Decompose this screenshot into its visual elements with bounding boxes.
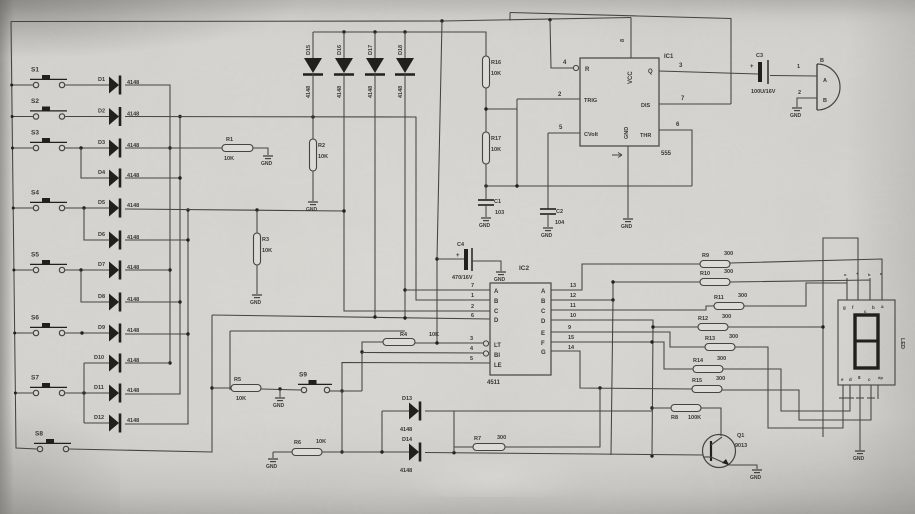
diode D4 <box>98 169 139 188</box>
display top pin stubs <box>846 278 848 300</box>
switch S4 <box>30 190 67 211</box>
display digit 8 <box>855 315 878 368</box>
svg-text:3: 3 <box>470 336 473 342</box>
svg-text:R8: R8 <box>671 415 678 421</box>
wire TRIG vertical to bottom rail <box>516 99 518 186</box>
svg-text:5: 5 <box>470 356 473 362</box>
wire mystery row above LT <box>229 331 231 390</box>
node B jog corner <box>611 280 614 283</box>
svg-text:D9: D9 <box>98 325 105 331</box>
svg-text:4148: 4148 <box>306 86 312 98</box>
svg-text:a: a <box>880 271 883 276</box>
display bottom pin stubs <box>842 385 844 399</box>
wire R17 to rail <box>485 164 487 199</box>
svg-text:14: 14 <box>568 345 575 351</box>
svg-text:R11: R11 <box>714 295 724 301</box>
svg-text:B: B <box>820 58 824 64</box>
svg-text:BI: BI <box>494 353 500 359</box>
svg-text:12: 12 <box>570 293 576 299</box>
node rail2 D17 tap <box>373 30 376 33</box>
svg-text:4148: 4148 <box>400 427 412 433</box>
wire pin11 C to R11 <box>551 306 714 310</box>
diode D13 <box>409 402 420 421</box>
pin4 BI circle <box>483 351 488 356</box>
svg-text:S6: S6 <box>31 315 39 322</box>
wire pin10 D to R12 <box>551 320 698 327</box>
display pin tick marks <box>839 397 847 399</box>
wire R7 left stub <box>454 446 473 448</box>
svg-text:R6: R6 <box>294 440 301 446</box>
wire D13 row <box>425 410 652 412</box>
wire C3 to speaker pin1 <box>770 75 817 78</box>
wire pin15 F to R14 <box>551 342 693 369</box>
wire D16 column stub <box>343 32 345 58</box>
wire R6 ground stub <box>272 452 274 458</box>
svg-text:GND: GND <box>273 403 285 409</box>
node R5 tap on S8 vertical <box>210 386 213 389</box>
svg-text:13: 13 <box>570 283 576 289</box>
svg-text:D17: D17 <box>368 45 374 55</box>
svg-text:D14: D14 <box>402 437 413 443</box>
svg-text:VCC: VCC <box>628 71 634 84</box>
pin3 LT circle <box>483 341 488 346</box>
svg-text:R4: R4 <box>400 332 408 338</box>
switch S8 <box>34 431 71 452</box>
svg-text:4148: 4148 <box>368 86 374 98</box>
diode D11 <box>94 384 139 403</box>
svg-text:f: f <box>852 305 854 310</box>
svg-text:DIS: DIS <box>641 103 651 109</box>
svg-text:300: 300 <box>722 314 731 320</box>
svg-text:300: 300 <box>716 376 725 382</box>
node R7 vertical tap <box>598 386 601 389</box>
svg-text:15: 15 <box>568 335 574 341</box>
svg-text:C: C <box>494 309 499 315</box>
capacitor C2 <box>540 209 556 214</box>
ground display <box>853 451 865 462</box>
wire 555 pin3 Q out <box>659 71 758 74</box>
svg-text:4148: 4148 <box>127 203 139 209</box>
ground speaker <box>790 108 802 119</box>
wire rail stub to S5 <box>14 269 33 271</box>
svg-text:GND: GND <box>306 207 318 213</box>
wire R8 to collector <box>701 408 721 436</box>
diode D5 <box>98 199 139 218</box>
wire pin14 G down <box>551 351 692 389</box>
svg-text:A: A <box>823 78 827 84</box>
node V1 bottom on LT row <box>435 341 438 344</box>
wire display common to ground <box>859 399 861 450</box>
diode D8 <box>98 293 139 312</box>
svg-text:103: 103 <box>495 210 504 216</box>
svg-text:10K: 10K <box>429 332 439 338</box>
node F row tap <box>650 340 653 343</box>
wire R6 left <box>273 451 292 453</box>
svg-text:C: C <box>541 309 546 315</box>
svg-text:R5: R5 <box>234 377 241 383</box>
node rail-R17 <box>484 184 487 187</box>
svg-text:10K: 10K <box>318 154 328 160</box>
node S9-LE junction <box>340 389 343 392</box>
wire D5 row long run to D16 column <box>125 209 344 211</box>
wire display common loop <box>823 238 858 437</box>
wire 555 pin7 DIS <box>659 103 731 105</box>
svg-text:8: 8 <box>620 39 626 42</box>
svg-text:6: 6 <box>471 313 474 319</box>
switch S1 <box>30 67 67 88</box>
wire R4 left corner down <box>362 342 383 391</box>
svg-text:4: 4 <box>470 346 474 352</box>
wire R2 to ground <box>312 171 314 201</box>
svg-text:LT: LT <box>494 343 501 349</box>
wire rail stub to S6 <box>15 332 33 334</box>
wire R16-R17 link <box>485 88 487 132</box>
wire R16 junction jog <box>486 108 517 110</box>
wire pin9 E to R13 <box>551 332 705 347</box>
node loop-R12 <box>821 325 824 328</box>
svg-text:D: D <box>541 319 546 325</box>
node D18 - IC2 pin A row <box>403 288 406 291</box>
resistor R12 <box>698 314 731 331</box>
svg-text:G: G <box>541 350 546 356</box>
svg-text:GND: GND <box>790 113 802 119</box>
svg-text:300: 300 <box>717 356 726 362</box>
wire LE vertical continues down to R6 row <box>341 391 343 452</box>
node row B - D15 column <box>311 115 314 118</box>
svg-text:R7: R7 <box>474 436 481 442</box>
svg-text:e: e <box>841 377 844 382</box>
switch S6 <box>30 315 67 336</box>
resistor R16 <box>483 56 502 88</box>
wire S3 branch down to D4 <box>81 148 109 178</box>
transistor Q1 9013 <box>703 433 748 468</box>
svg-text:D7: D7 <box>98 262 105 268</box>
wire long row from S8 vertical to IC2 pin 6 <box>212 315 490 319</box>
svg-text:2: 2 <box>471 304 474 310</box>
svg-text:104: 104 <box>555 220 565 226</box>
wire D3 row to R1 <box>125 147 222 149</box>
wire R12 to display loop <box>728 326 823 328</box>
svg-text:4: 4 <box>563 60 567 66</box>
wire D11 row to bus B <box>125 390 180 394</box>
svg-text:R13: R13 <box>705 336 715 342</box>
speaker B <box>817 58 840 110</box>
svg-text:10K: 10K <box>224 156 234 162</box>
svg-text:300: 300 <box>729 334 738 340</box>
wire VCC top rail <box>11 18 631 22</box>
svg-text:1: 1 <box>797 64 800 70</box>
svg-text:6: 6 <box>676 122 680 128</box>
wire 555 pin5 CVolt <box>548 132 580 134</box>
svg-text:B: B <box>823 98 827 104</box>
wire LT row R4 to pin3 <box>415 342 483 344</box>
node R12 row tap <box>651 325 654 328</box>
ground C4 <box>494 272 506 283</box>
wire S6 to D9 <box>65 332 109 334</box>
wire D8 row to bus B <box>125 301 180 303</box>
wire S7 to D11 <box>65 392 109 394</box>
wire rail stub to S1 <box>12 84 33 86</box>
wire ground stub <box>279 389 281 397</box>
wire D13-D14 left vertical <box>381 411 383 452</box>
svg-text:g: g <box>843 305 846 310</box>
wire 555 GND pin down <box>627 146 629 218</box>
svg-text:GND: GND <box>261 161 273 167</box>
resistor R10 <box>700 269 733 286</box>
svg-text:7: 7 <box>471 283 474 289</box>
svg-text:S9: S9 <box>299 372 307 379</box>
svg-text:a: a <box>881 304 884 309</box>
wire R5 to S9 <box>261 389 301 390</box>
svg-text:A: A <box>494 289 499 295</box>
svg-text:11: 11 <box>570 303 576 309</box>
svg-text:10K: 10K <box>236 396 246 402</box>
wire D4 row to bus B <box>125 177 180 179</box>
diode D10 <box>94 354 139 373</box>
svg-text:10: 10 <box>570 313 576 319</box>
node rail2 D16 tap <box>342 30 345 33</box>
node rail junction at x440 <box>440 19 443 22</box>
diode D1 <box>98 76 139 95</box>
resistor R11 <box>714 293 747 310</box>
wire R10 to display <box>730 280 870 300</box>
wire 555 pin2 TRIG <box>517 98 580 100</box>
node D13 vertical <box>380 450 383 453</box>
wire C4 left stub <box>437 258 464 260</box>
wire R9 to display pin a <box>730 259 882 300</box>
wire C1 to ground <box>485 205 487 217</box>
node D16 column - D5 row <box>342 209 345 212</box>
svg-text:5: 5 <box>559 125 563 131</box>
wire speaker pin2 to ground <box>797 98 817 107</box>
svg-text:c: c <box>868 377 871 382</box>
wire left supply rail <box>11 22 37 450</box>
svg-text:D13: D13 <box>402 396 412 402</box>
wire rail stub to S3 <box>13 147 34 149</box>
svg-text:R15: R15 <box>692 378 702 384</box>
wire 555 pin8 VCC stub <box>630 18 632 59</box>
wire S4 branch down to D6 <box>84 208 109 240</box>
svg-text:GND: GND <box>621 224 633 230</box>
svg-text:4148: 4148 <box>400 468 412 474</box>
svg-text:555: 555 <box>661 151 672 157</box>
svg-text:470/16V: 470/16V <box>452 275 473 281</box>
svg-text:4148: 4148 <box>337 86 343 98</box>
wire R6 row to D14 <box>322 451 409 453</box>
switch S9 <box>298 372 332 393</box>
svg-text:R10: R10 <box>700 271 710 277</box>
ground 555 <box>621 219 633 230</box>
wire S9 right <box>330 390 362 392</box>
switch S2 <box>30 98 67 119</box>
wire pin5 down to C2 <box>547 133 549 209</box>
svg-text:D6: D6 <box>98 232 105 238</box>
wire BI row <box>362 352 483 355</box>
svg-text:9: 9 <box>568 325 571 331</box>
wire R1 to ground <box>253 148 268 155</box>
diode D14 <box>409 443 420 462</box>
svg-text:b: b <box>868 272 871 277</box>
small arrow marker <box>612 153 622 158</box>
svg-text:S4: S4 <box>31 190 39 197</box>
resistor R4 <box>383 332 439 346</box>
diode D18 <box>395 45 415 98</box>
svg-text:D12: D12 <box>94 415 104 421</box>
svg-text:GND: GND <box>479 223 491 229</box>
svg-text:IC2: IC2 <box>519 265 530 272</box>
switch S5 <box>30 252 67 273</box>
svg-text:R16: R16 <box>491 60 501 66</box>
node bus A - D10 <box>168 361 171 364</box>
wire D6 row to bus C <box>125 239 188 241</box>
node R7 left vertical joint <box>452 451 455 454</box>
wire D15 column to R2 <box>312 74 314 139</box>
svg-text:C3: C3 <box>756 53 763 59</box>
svg-text:S7: S7 <box>31 375 39 382</box>
node LE-R6 row <box>340 450 343 453</box>
svg-text:D10: D10 <box>94 355 104 361</box>
resistor R6 <box>292 449 322 456</box>
node base line tap <box>650 454 653 457</box>
svg-text:4511: 4511 <box>487 380 501 386</box>
resistor R5 <box>231 377 261 392</box>
diode D3 <box>98 139 139 158</box>
svg-text:300: 300 <box>724 269 733 275</box>
svg-text:+: + <box>456 253 460 259</box>
node rail2 D18 tap <box>403 30 406 33</box>
svg-text:D2: D2 <box>98 109 105 115</box>
wire VCC vertical to R4/LT row <box>437 21 442 343</box>
wire emitter to ground <box>729 465 757 469</box>
svg-text:D3: D3 <box>98 140 105 146</box>
svg-text:Q: Q <box>648 69 653 75</box>
svg-text:R1: R1 <box>226 137 233 143</box>
svg-text:7: 7 <box>681 96 685 102</box>
svg-text:10K: 10K <box>262 248 272 254</box>
svg-text:D8: D8 <box>98 294 105 300</box>
svg-text:D11: D11 <box>94 385 104 391</box>
ground R1 <box>261 156 273 167</box>
resistor R8 <box>671 405 701 412</box>
wire S5 branch down to D8 <box>81 270 109 302</box>
svg-text:1: 1 <box>471 293 474 299</box>
svg-text:D16: D16 <box>337 45 343 55</box>
node ground tap <box>278 387 281 390</box>
svg-text:C1: C1 <box>494 199 501 205</box>
diode D15 <box>303 45 323 98</box>
svg-text:GND: GND <box>750 475 762 481</box>
wire S1 to D1 <box>65 84 109 86</box>
wire bottom rail R17-C1 to pin6 loop <box>486 185 692 187</box>
wire D10 left stub <box>84 362 109 364</box>
wire R13 to display <box>735 347 843 428</box>
wire bus C vertical <box>187 210 189 424</box>
diode D12 <box>94 414 139 433</box>
svg-text:10K: 10K <box>316 439 326 445</box>
wire R8 left stub <box>652 407 671 409</box>
wire row B long run to IC2 pin 1 <box>125 117 490 301</box>
svg-text:100U/16V: 100U/16V <box>751 89 776 95</box>
capacitor C3 electrolytic <box>750 53 776 95</box>
svg-text:S5: S5 <box>31 252 39 259</box>
diode D17 <box>365 45 385 98</box>
node BI tap <box>360 350 363 353</box>
wire C2 to ground <box>547 214 549 227</box>
svg-text:D15: D15 <box>306 45 312 55</box>
node bus B top on row B <box>178 115 181 118</box>
svg-text:CVolt: CVolt <box>584 132 598 138</box>
wire S5 to D7 <box>65 269 109 271</box>
node pin4 circle <box>573 65 578 70</box>
wire D12 row to bus C <box>125 420 188 424</box>
node D18 on pin6 row <box>403 316 406 319</box>
svg-text:F: F <box>541 341 545 347</box>
node rail junction at x551 <box>548 18 551 21</box>
svg-text:GND: GND <box>266 464 278 470</box>
wire R3 to ground <box>256 265 258 294</box>
node B jog tee <box>611 298 614 301</box>
svg-text:E: E <box>541 331 545 337</box>
IC U2 4511 box IC2 <box>490 283 551 375</box>
wire S4 to D5 <box>65 207 109 209</box>
svg-text:8: 8 <box>858 375 861 380</box>
node bus A - D3 <box>168 146 171 149</box>
wire D9 row to bus C <box>125 333 188 335</box>
wire D18 column stub <box>404 32 406 58</box>
svg-text:D5: D5 <box>98 200 105 206</box>
ground C1 <box>479 218 491 229</box>
wire D16 column down to IC2 pin 2 row <box>344 74 490 311</box>
node rail-TRIG <box>515 184 518 187</box>
ground R2 <box>306 202 318 213</box>
svg-text:GND: GND <box>541 233 553 239</box>
wire R14 to display <box>723 369 850 411</box>
ground C2 <box>541 228 553 239</box>
svg-text:R17: R17 <box>491 136 501 142</box>
svg-text:IC1: IC1 <box>664 54 674 60</box>
wire IC2 pin 7 row <box>405 289 490 291</box>
wire D12 left stub <box>84 422 109 424</box>
wire R5 left stub <box>212 387 231 389</box>
wire second rail for D15-D18 anodes <box>313 32 486 56</box>
wire 555 pin6 THR loop <box>659 130 692 186</box>
svg-text:10K: 10K <box>491 147 501 153</box>
diode D2 <box>98 107 139 126</box>
svg-text:C4: C4 <box>457 242 465 248</box>
wire bus B vertical <box>179 117 181 395</box>
svg-text:300: 300 <box>497 435 506 441</box>
wire D15 column stub <box>312 32 314 58</box>
node D17 on pin6 row <box>373 315 376 318</box>
wire D7 row <box>125 269 170 271</box>
svg-text:S2: S2 <box>31 98 39 105</box>
diode D9 <box>98 324 139 343</box>
wire R7 left vertical <box>453 411 455 453</box>
svg-text:GND: GND <box>624 127 630 139</box>
svg-text:R12: R12 <box>698 316 708 322</box>
resistor R3 <box>254 233 273 265</box>
svg-text:R9: R9 <box>702 253 709 259</box>
wire F-row vertical to R8 and base line <box>652 327 653 456</box>
capacitor C4 electrolytic <box>452 242 473 281</box>
wire bus A vertical <box>125 85 170 363</box>
wire D18 column down <box>404 74 406 318</box>
node C4 tap <box>435 257 438 260</box>
wire B vertical tail down to base line <box>611 300 613 455</box>
svg-text:Q1: Q1 <box>737 433 744 439</box>
svg-text:LED: LED <box>899 338 905 349</box>
svg-text:3: 3 <box>679 63 683 69</box>
